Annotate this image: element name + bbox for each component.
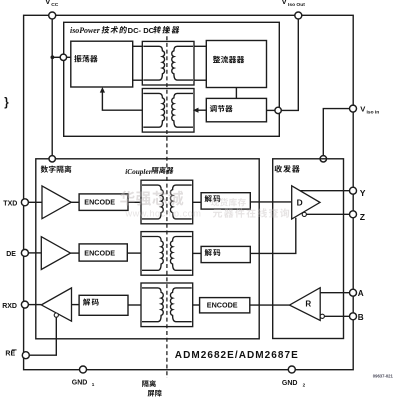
label rectifier xyxy=(213,56,220,63)
label decode2 xyxy=(205,249,212,256)
transformer ch3 xyxy=(141,283,193,327)
label regulator xyxy=(210,105,217,112)
transformer ch2 xyxy=(141,232,193,276)
rectifier box xyxy=(206,41,266,88)
wire T1 to rectifier bottom xyxy=(194,79,206,81)
svg-text:ENCODE: ENCODE xyxy=(84,197,115,206)
wire regulator to VisoOut terminal xyxy=(267,109,275,111)
pin VisoOut xyxy=(295,12,302,19)
transformer T1 (power) xyxy=(142,41,194,85)
terminal circle VCC into isoPower xyxy=(60,54,66,60)
bubble driver inverted output Z xyxy=(302,212,306,216)
wire VCC stub into oscillator xyxy=(67,56,71,58)
svg-text:R: R xyxy=(305,300,311,309)
svg-text:ENCODE: ENCODE xyxy=(84,248,115,257)
junction dot VCC rail xyxy=(51,55,55,59)
svg-text:1: 1 xyxy=(92,382,95,387)
receiver R xyxy=(290,288,321,321)
wire buffer to ENCODE1 xyxy=(71,201,79,203)
buffer TXD xyxy=(42,186,71,219)
wire transformer ch2 to decode2 xyxy=(193,252,201,254)
transceiver box xyxy=(273,159,344,339)
svg-text:A: A xyxy=(358,289,364,298)
label digital isolation xyxy=(41,166,48,173)
wire ENCODE2 to transformer ch2 xyxy=(127,252,141,254)
svg-text:isoPower: isoPower xyxy=(70,26,101,35)
svg-text:GND: GND xyxy=(282,380,298,387)
svg-text:2: 2 xyxy=(303,382,306,387)
wire VCC junction to isoPower terminal xyxy=(52,56,60,58)
label oscillator xyxy=(74,55,81,62)
pin B xyxy=(350,313,357,320)
wire T2 feedback to oscillator with arrow xyxy=(102,92,142,111)
svg-text:RE: RE xyxy=(5,351,15,358)
pin GND2 xyxy=(288,366,295,373)
terminal circle regulator output VisoOut xyxy=(275,107,281,113)
pin Y xyxy=(350,187,357,194)
wire transformer ch1 to decode1 xyxy=(193,201,201,203)
ENCODE3 box xyxy=(200,298,250,313)
wire driver to pin Z xyxy=(306,213,349,215)
wire DE stub xyxy=(28,252,41,254)
pin RXD xyxy=(21,301,28,308)
watermark hqchip xyxy=(120,191,289,219)
pin Z xyxy=(350,211,357,218)
decode1 box xyxy=(201,193,250,209)
ENCODE1 box xyxy=(79,194,128,211)
label decode3 xyxy=(83,298,90,305)
wire decode1 to driver D xyxy=(250,201,291,203)
wire pin B to receiver bubble xyxy=(324,315,349,317)
wire RXD buffer to decode3 xyxy=(72,304,80,306)
svg-text:GND: GND xyxy=(72,380,88,387)
wire buffer to ENCODE2 xyxy=(71,252,80,254)
pin VCC xyxy=(49,12,56,19)
svg-text:Y: Y xyxy=(360,188,366,198)
oscillator box xyxy=(71,41,133,87)
wire VCC rail xyxy=(51,19,53,156)
svg-text:TXD: TXD xyxy=(3,201,17,208)
svg-text:DC- DC: DC- DC xyxy=(128,26,155,35)
terminal circle VCC into digital box xyxy=(49,156,55,162)
svg-text:B: B xyxy=(358,313,364,322)
decode3 box xyxy=(79,295,128,315)
svg-text:09637-021: 09637-021 xyxy=(373,373,394,378)
pin VisoIn xyxy=(350,105,357,112)
wire VisoOut rail xyxy=(281,19,298,111)
wire oscillator to T1 bottom xyxy=(133,79,143,81)
wire driver to pin Y xyxy=(300,190,350,192)
wire regulator to T2 with arrow xyxy=(197,109,206,111)
bubble receiver inverting input B xyxy=(320,314,324,318)
pin TXD xyxy=(21,199,28,206)
isolation barrier dashed line xyxy=(166,30,168,379)
svg-text:DE: DE xyxy=(6,251,16,258)
wire transformer ch3 to ENCODE3 xyxy=(193,304,200,306)
buffer RXD xyxy=(41,288,71,321)
pin RE xyxy=(22,352,29,359)
svg-text:Iso Out: Iso Out xyxy=(288,2,305,8)
wire RE to RXD buffer enable xyxy=(29,317,56,355)
wire RXD stub xyxy=(28,304,41,306)
wire rectifier to regulator xyxy=(235,88,237,99)
driver D xyxy=(292,186,320,219)
svg-text:RXD: RXD xyxy=(2,303,17,310)
svg-text:www.hqchip.com: www.hqchip.com xyxy=(125,209,202,219)
svg-text:}: } xyxy=(4,97,9,109)
buffer DE xyxy=(41,237,70,270)
isoPower DC-DC converter box xyxy=(64,22,280,136)
pin GND1 xyxy=(80,366,87,373)
svg-text:iCoupler: iCoupler xyxy=(125,167,152,176)
wire TXD stub xyxy=(28,201,42,203)
wire decode3 to transformer ch3 xyxy=(128,304,141,306)
transformer T2 (feedback) xyxy=(142,89,194,133)
chip outline ADM2682E/ADM2687E xyxy=(24,15,354,369)
pin DE xyxy=(21,249,28,256)
svg-text:D: D xyxy=(297,197,303,207)
svg-text:Iso In: Iso In xyxy=(367,109,380,115)
label isolation barrier xyxy=(142,380,148,387)
svg-text:ENCODE: ENCODE xyxy=(207,301,238,310)
regulator box xyxy=(206,98,266,121)
label transceiver xyxy=(275,165,282,173)
transformer ch1 xyxy=(141,180,193,224)
ENCODE2 box xyxy=(79,244,127,261)
svg-text:ADM2682E/ADM2687E: ADM2682E/ADM2687E xyxy=(175,350,299,361)
label decode1 xyxy=(205,195,212,202)
svg-text:Z: Z xyxy=(360,212,365,222)
wire receiver R to ENCODE3 xyxy=(250,304,290,306)
decode2 box xyxy=(201,246,250,262)
wire oscillator to T1 top xyxy=(133,45,143,47)
digital isolation box xyxy=(36,159,259,339)
wire decode2 to driver enable xyxy=(250,218,295,254)
enable bubble RXD buffer xyxy=(54,313,58,317)
wire T1 to rectifier top xyxy=(194,45,206,47)
wire VisoIn to transceiver xyxy=(323,109,349,156)
svg-text:CC: CC xyxy=(51,2,59,8)
pin A xyxy=(350,289,357,296)
terminal circle VisoIn into transceiver xyxy=(320,156,326,162)
wire ENCODE1 to transformer ch1 xyxy=(128,201,141,203)
wire pin A to receiver xyxy=(320,292,350,294)
